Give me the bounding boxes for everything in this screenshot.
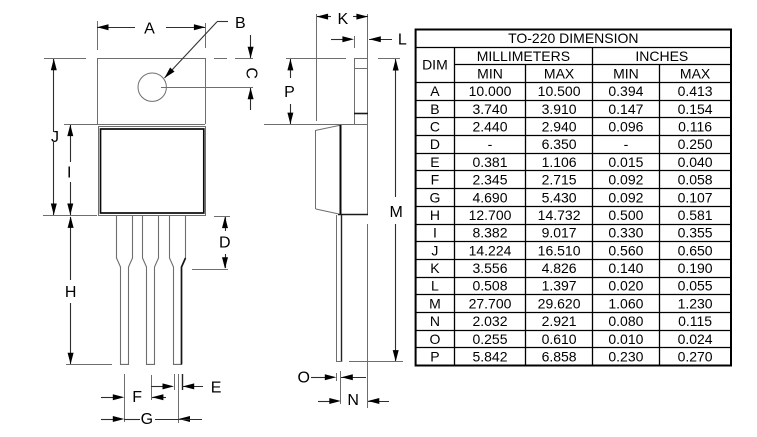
svg-text:INCHES: INCHES [635,48,688,64]
svg-text:2.440: 2.440 [472,119,507,135]
svg-text:E: E [211,380,222,397]
label N [347,392,359,409]
table row M [429,295,713,311]
front view: mounting tab [97,58,206,125]
front view: pin 3 [170,216,186,365]
svg-text:29.620: 29.620 [538,295,581,311]
svg-text:B: B [235,15,246,32]
svg-text:I: I [433,225,437,241]
svg-text:0.255: 0.255 [472,331,507,347]
extension tick pin3 left edge [174,374,176,390]
label P [284,84,295,101]
table row K [430,260,713,276]
svg-text:G: G [141,411,153,428]
svg-text:0.508: 0.508 [472,278,507,294]
label L [398,32,407,49]
svg-text:2.032: 2.032 [472,313,507,329]
body top reference line (left) [64,124,97,126]
svg-text:0.190: 0.190 [678,260,713,276]
extension line pin3 centre [178,374,180,423]
tab top reference line (right, dashed) [214,58,253,60]
extension tick pin3 right edge [182,374,184,390]
label J [51,129,59,146]
dim N arrows [318,398,389,404]
dim J arrow line [51,59,57,215]
table row F [431,172,713,188]
table row D [430,136,713,152]
svg-text:K: K [337,11,348,28]
svg-text:H: H [430,207,440,223]
svg-text:1.230: 1.230 [678,295,713,311]
svg-text:K: K [430,260,440,276]
table outer border [416,30,731,366]
svg-text:5.842: 5.842 [472,349,507,365]
svg-text:L: L [431,278,439,294]
dim E arrows [151,383,203,389]
table row J [431,242,712,258]
svg-text:27.700: 27.700 [469,295,512,311]
svg-text:-: - [488,136,493,152]
table header INCHES [635,48,688,64]
label M [390,204,403,221]
svg-text:0.355: 0.355 [678,225,713,241]
svg-text:0.270: 0.270 [678,349,713,365]
svg-text:0.140: 0.140 [608,260,643,276]
svg-text:4.826: 4.826 [542,260,577,276]
dim A arrow line [97,24,205,30]
svg-text:2.345: 2.345 [472,172,507,188]
svg-text:0.080: 0.080 [608,313,643,329]
table row B [430,101,713,117]
svg-text:H: H [65,284,77,301]
side view: pin profile [337,215,343,362]
tab top reference line (left) [44,58,86,60]
svg-text:0.413: 0.413 [678,83,713,99]
front view: pin 2 [143,216,159,365]
dim O arrows [311,374,366,380]
svg-text:B: B [430,101,439,117]
svg-text:MILLIMETERS: MILLIMETERS [477,48,570,64]
svg-text:DIM: DIM [422,57,448,73]
svg-text:14.224: 14.224 [469,242,512,258]
front view: body inner face [101,129,204,213]
svg-text:F: F [132,389,142,406]
svg-text:10.500: 10.500 [538,83,581,99]
svg-text:5.430: 5.430 [542,189,577,205]
svg-text:0.610: 0.610 [542,331,577,347]
svg-text:0.092: 0.092 [608,189,643,205]
svg-text:L: L [398,32,407,49]
svg-text:8.382: 8.382 [472,225,507,241]
svg-text:12.700: 12.700 [469,207,512,223]
dim A (tab width) extension lines [98,21,206,50]
extension line pin2 centre [151,375,153,400]
front view: body outline [98,126,206,216]
svg-text:0.394: 0.394 [608,83,643,99]
table row G [429,189,712,205]
dim C arrows [248,35,254,110]
svg-text:0.010: 0.010 [608,331,643,347]
svg-text:D: D [219,235,231,252]
svg-text:MAX: MAX [544,66,575,82]
svg-text:G: G [429,189,440,205]
label E [211,380,222,397]
label C (rotated) [243,67,260,79]
svg-text:0.115: 0.115 [678,313,712,329]
svg-text:P: P [284,84,295,101]
body bottom reference line (right) [214,216,230,218]
table row H [430,207,713,223]
table title TO-220 DIMENSION [508,30,638,46]
svg-text:M: M [390,204,403,221]
dim F arrows [101,394,166,400]
svg-text:0.381: 0.381 [472,154,507,170]
dim M top reference line [378,58,400,60]
svg-text:6.350: 6.350 [542,136,577,152]
front view: pin 1 [117,216,133,365]
svg-text:D: D [430,136,440,152]
dim G arrows [101,416,202,422]
label D [219,235,231,252]
svg-text:J: J [431,242,438,258]
table header MIN/MAX row [477,66,711,82]
table header DIM [422,57,448,73]
svg-text:0.581: 0.581 [678,207,713,223]
dim M bottom reference line [349,361,403,363]
svg-text:0.154: 0.154 [678,101,713,117]
label H [65,284,77,301]
label O [297,369,309,386]
svg-text:A: A [430,83,440,99]
label K [337,11,348,28]
label I [67,165,71,182]
body bottom reference line (left) [43,215,97,217]
table row C [430,119,712,135]
dim H arrow line [68,216,74,364]
table header MILLIMETERS [477,48,570,64]
svg-text:O: O [429,331,440,347]
extension line pin1 centre [124,374,126,422]
svg-text:3.910: 3.910 [542,101,577,117]
svg-text:C: C [430,119,440,135]
svg-text:1.060: 1.060 [608,295,643,311]
svg-text:0.650: 0.650 [678,242,713,258]
svg-text:MAX: MAX [680,66,711,82]
svg-text:TO-220 DIMENSION: TO-220 DIMENSION [508,30,638,46]
svg-text:F: F [431,172,440,188]
svg-text:0.055: 0.055 [678,278,713,294]
svg-text:0.116: 0.116 [678,119,712,135]
dim K arrows [317,14,368,20]
dim L extension tick [354,36,356,48]
svg-text:0.015: 0.015 [608,154,643,170]
svg-text:14.732: 14.732 [538,207,581,223]
table row I [433,225,713,241]
dim L arrows [331,36,392,42]
label A [144,20,155,37]
extension tick pin right edge (side) [340,371,342,404]
svg-text:0.560: 0.560 [608,242,643,258]
svg-text:J: J [51,129,59,146]
svg-text:9.017: 9.017 [542,225,577,241]
table row N [430,313,712,329]
svg-text:10.000: 10.000 [469,83,512,99]
svg-text:I: I [67,165,71,182]
svg-text:A: A [144,20,155,37]
dim P arrow line [287,59,293,124]
label F [132,389,142,406]
svg-text:2.940: 2.940 [542,119,577,135]
dim M arrow line [393,59,399,362]
tab top reference line (side view) [286,58,346,60]
svg-text:0.147: 0.147 [608,101,643,117]
svg-text:0.250: 0.250 [678,136,713,152]
svg-text:3.556: 3.556 [472,260,507,276]
svg-text:0.500: 0.500 [608,207,643,223]
dim D arrow line [222,217,228,269]
dim I arrow line [67,125,73,215]
svg-text:-: - [624,136,629,152]
table row L [431,278,713,294]
svg-text:N: N [430,313,440,329]
table row E [430,154,713,170]
svg-text:16.510: 16.510 [538,242,581,258]
svg-text:0.020: 0.020 [608,278,643,294]
pin taper reference line (right of pin 3) [192,269,228,271]
svg-text:0.024: 0.024 [678,331,713,347]
svg-text:P: P [430,349,439,365]
svg-text:6.858: 6.858 [542,349,577,365]
extension line body rear face (side) [367,224,369,408]
side view: body profile [264,124,368,215]
label B [235,15,246,32]
svg-text:0.330: 0.330 [608,225,643,241]
label G [141,411,153,428]
table row O [429,331,712,347]
svg-text:3.740: 3.740 [472,101,507,117]
extension tick pin left edge (side) [336,373,338,381]
dim K extension lines [317,14,368,121]
svg-text:0.107: 0.107 [678,189,713,205]
svg-text:0.040: 0.040 [678,154,713,170]
svg-text:N: N [347,392,359,409]
svg-text:1.397: 1.397 [542,278,577,294]
table vertical grid lines [455,47,660,365]
svg-text:4.690: 4.690 [472,189,507,205]
table row A [430,83,713,99]
table row P [430,349,713,365]
svg-text:MIN: MIN [613,66,639,82]
pin bottom reference line (left) [66,364,112,366]
svg-text:0.092: 0.092 [608,172,643,188]
svg-text:2.715: 2.715 [542,172,577,188]
svg-text:0.230: 0.230 [608,349,643,365]
svg-text:1.106: 1.106 [542,154,577,170]
hole centre reference line [161,87,253,89]
svg-text:0.096: 0.096 [608,119,643,135]
svg-text:E: E [430,154,439,170]
side view: metal tab profile [354,58,368,124]
svg-text:C: C [243,67,260,79]
svg-text:M: M [429,295,441,311]
table horizontal grid lines [416,48,731,348]
svg-text:O: O [297,369,309,386]
svg-text:MIN: MIN [477,66,503,82]
front view: mounting hole [138,73,166,101]
dim B leader arrow to hole [165,22,229,79]
svg-text:0.058: 0.058 [678,172,713,188]
svg-text:2.921: 2.921 [542,313,577,329]
